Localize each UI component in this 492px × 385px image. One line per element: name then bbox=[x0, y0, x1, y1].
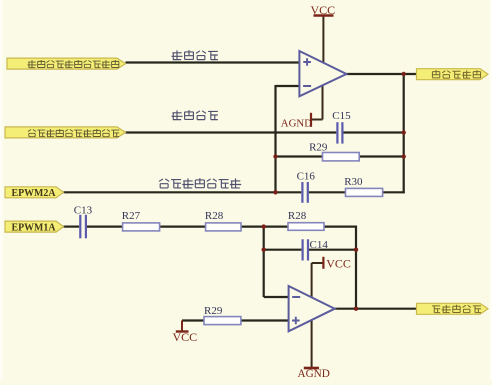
svg-text:C15: C15 bbox=[332, 110, 351, 122]
svg-text:R29: R29 bbox=[204, 305, 223, 317]
svg-text:EPWM1A: EPWM1A bbox=[12, 223, 56, 234]
svg-text:VCC: VCC bbox=[311, 3, 336, 17]
svg-text:R28: R28 bbox=[205, 210, 224, 222]
svg-text:R29: R29 bbox=[309, 142, 328, 154]
svg-text:VCC: VCC bbox=[326, 256, 351, 270]
svg-text:R27: R27 bbox=[122, 210, 141, 222]
svg-text:C14: C14 bbox=[310, 239, 329, 251]
svg-text:C13: C13 bbox=[74, 205, 93, 217]
svg-text:VCC: VCC bbox=[173, 330, 198, 344]
svg-text:AGND: AGND bbox=[298, 368, 330, 380]
svg-text:R30: R30 bbox=[344, 176, 363, 188]
svg-text:C16: C16 bbox=[297, 171, 316, 183]
svg-text:AGND: AGND bbox=[281, 117, 312, 129]
svg-text:EPWM2A: EPWM2A bbox=[12, 188, 56, 199]
svg-text:R28: R28 bbox=[288, 210, 307, 222]
